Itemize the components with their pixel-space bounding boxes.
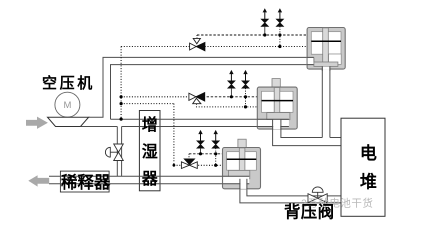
inlet gray arrow [26, 117, 48, 129]
wire: top ejector output pipe right line [329, 66, 331, 138]
vent valve pair top row [261, 8, 283, 48]
junction dot at x=121 y=103.6 [120, 102, 123, 105]
control line: top valve stem dotted [196, 35, 198, 38]
svg-text:增: 增 [142, 115, 158, 134]
junction dot at x=121 y=119.1 [120, 118, 123, 121]
vent valve V-B1 [197, 130, 204, 156]
diluter box 稀释器 [60, 171, 109, 192]
control line: vertical dotted at x=173.9 [173, 104, 175, 166]
pressure regulator valve bottom (3-way) [181, 159, 197, 169]
wire: air pipe upper line to humidifier and middle ejector suction [111, 118, 259, 120]
wire: middle ejector output pipe inner line [281, 125, 322, 138]
svg-text:堆: 堆 [360, 171, 377, 191]
ejector U2 middle [257, 79, 297, 130]
wire: diluter pipe lower line [49, 183, 223, 185]
vent valve V-T2 [276, 8, 283, 48]
control line: middle valve bottom port dotted y=106.9 [197, 104, 258, 107]
control line: vertical dotted main at x=121 [120, 47, 122, 120]
control line: top row upper dashed y=35 [197, 34, 307, 36]
label 增湿器 vertical [141, 115, 159, 188]
wire: air pipe lower line from compressor [81, 126, 117, 128]
svg-text:M: M [63, 100, 71, 111]
compressor trapezoid [48, 117, 89, 126]
ejector U3 bottom [223, 139, 261, 189]
wire: air pipe lower line resumed to middle ejector suction [122, 126, 259, 128]
svg-text:器: 器 [141, 170, 159, 188]
wire: bottom ejector output pipe left line down and right to stack [240, 184, 341, 203]
junction dot at x=173.9 y=165.3 [173, 164, 176, 167]
compressor motor circle [55, 92, 80, 117]
back pressure valve 背压阀 [308, 187, 327, 203]
vent valve V-M1 [228, 70, 235, 99]
wire: diluter pipe upper line [49, 175, 223, 177]
humidifier box 增湿器 [139, 111, 160, 191]
control line: bottom valve stem [188, 154, 190, 158]
control line: bottom row upper dashed y=153.8 [189, 153, 223, 155]
control line: bottom row lower dotted y=165.3 [174, 164, 223, 166]
label 电堆 vertical [360, 143, 377, 191]
vent valve pair bottom row [197, 130, 219, 167]
control line: top row lower dotted y=46.5 [121, 46, 307, 48]
wire: hydrogen inlet upper line segment to stack [330, 137, 341, 139]
outlet gray arrow (to diluter) [28, 175, 49, 186]
junction dot at x=121 y=96.8 [120, 95, 123, 98]
svg-text:稀释器: 稀释器 [61, 173, 111, 192]
svg-text:湿: 湿 [141, 143, 158, 161]
svg-text:空压机: 空压机 [42, 74, 95, 92]
wire: bypass branch pipe down to dome valve left line [116, 127, 118, 177]
bypass dome valve [105, 144, 123, 161]
wire: bottom ejector output pipe right line [247, 184, 341, 196]
pressure regulator valve top (3-way) [190, 38, 205, 50]
pressure regulator valve middle (3-way) [189, 93, 205, 104]
svg-text:电: 电 [360, 143, 377, 163]
wire: bypass branch pipe down right line [121, 127, 123, 177]
wire: middle ejector output pipe outer line down and right to stack [273, 125, 341, 146]
control line: middle row upper dashed right segment y=96.8 [203, 96, 258, 98]
control line: middle row upper dotted left segment y=96.8 [121, 96, 190, 98]
wire: top ejector output pipe left line [321, 66, 323, 138]
vent valve pair middle row [228, 70, 249, 109]
wire: compressor outlet riser outer line [89, 57, 314, 117]
svg-text:背压阀: 背压阀 [284, 202, 334, 222]
vent valve V-B2 [212, 130, 219, 167]
vent valve V-T1 [261, 8, 268, 36]
control line: middle branch dotted y=103.6 [121, 103, 174, 105]
wire: compressor outlet riser inner line [111, 65, 307, 120]
ejector U1 top [307, 28, 345, 71]
stack box 电堆 [341, 118, 385, 216]
vent valve V-M2 [242, 70, 249, 109]
